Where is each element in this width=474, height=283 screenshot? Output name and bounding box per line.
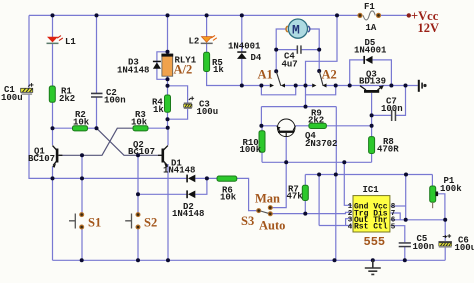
capacitor C1 [1,83,34,103]
svg-text:Rst Ctl: Rst Ctl [354,223,388,232]
svg-text:470R: 470R [377,145,399,155]
capacitor C7 [381,97,403,122]
potentiometer P1 [430,176,463,208]
wire cross line y106.6 [261,106,336,108]
wire R2 leads [53,127,73,129]
wire motor left branch [276,29,286,50]
relay coil RLY1 [161,54,196,77]
diode D5 [354,38,387,64]
svg-text:1N4001: 1N4001 [228,42,261,52]
wire D2 anode up to D1 row [195,178,207,194]
wire D3 bracket [157,52,168,80]
svg-text:1N4001: 1N4001 [354,46,387,56]
wire Q1 emitter drop [52,166,54,178]
wire Q2 collector riser [167,128,169,145]
wire Q4 collector to R9 [295,125,309,127]
wire crossover diagonal from C2 node to Q2 base [97,128,162,155]
svg-text:100k: 100k [240,145,262,155]
wire x336 drop to ground rail [335,107,337,175]
resistor R10 [240,131,266,155]
svg-text:1N4148: 1N4148 [117,66,149,76]
svg-text:IC1: IC1 [363,185,380,195]
wire pin6 row [391,219,446,221]
wire pin1 stub riser [344,162,352,205]
wire S2 branch [137,155,139,212]
svg-text:M: M [292,23,300,38]
+Vcc terminal [407,9,439,35]
svg-text:1N4148: 1N4148 [172,209,204,219]
svg-text:2N3702: 2N3702 [305,139,337,149]
svg-text:100n: 100n [381,104,403,114]
wire Q2 emitter to bottom rail [167,164,169,260]
wire Q4 emitter row [261,125,277,127]
diode D2 [172,190,204,219]
wire gnd-pin line y162.3 [262,161,372,163]
wire R7 bottom lead [304,201,306,214]
capacitor C5 [399,234,434,252]
wire bottom rail [53,259,446,261]
relay contact A2 [312,68,337,88]
svg-text:Man: Man [255,192,280,206]
resistor R1 [49,86,75,104]
transistor Q3 [359,70,386,93]
resistor R5 [204,52,225,75]
wire C4 row [276,49,297,51]
IC1 555 timer [348,185,396,249]
wire C2 column [96,15,98,93]
svg-text:5: 5 [391,223,396,231]
wire R7 top lead [304,175,306,186]
resistor R8 [369,137,400,155]
svg-text:S2: S2 [144,216,157,230]
svg-text:1A: 1A [366,23,377,33]
svg-text:555: 555 [364,235,386,249]
transistor Q1 [28,146,62,168]
svg-text:L1: L1 [65,37,76,47]
wire S1 branch [81,155,83,212]
wire pin8 stub [391,205,406,207]
svg-text:A2: A2 [322,68,337,82]
wire C5 bottom [404,247,406,261]
svg-text:1N4148: 1N4148 [163,166,195,176]
svg-text:2k2: 2k2 [308,115,324,125]
wire line y174.5 [305,174,432,176]
wire Auto line to pin2 [272,212,352,213]
wire A1 bypass U [261,86,295,95]
LED L1 [47,36,77,47]
wire fuse to Vcc terminal [381,14,408,16]
resistor R4 [152,95,171,115]
wire riser from Q4 emitter node [260,107,262,126]
wire R8 bottom to gnd-pin line [371,154,373,163]
wire D2 row from S2 branch [138,193,187,195]
diode D3 [117,58,161,76]
wire D5 cathode corner [350,60,364,86]
wire main row y85 D4 to A1 [242,85,270,87]
wire Q1 emitter to bottom rail [52,178,54,260]
wire P1 wiper wire [438,194,445,220]
wire D5 anode corner [372,60,391,86]
wire C3 branch [168,86,188,103]
ground symbol [365,260,381,274]
svg-text:100n: 100n [413,242,435,252]
chassis terminal symbol [418,80,427,92]
wire relay coil column [167,15,169,54]
capacitor C6 [439,234,474,253]
wire L1/R1 column [52,15,54,37]
wire Vcc feed from rail to A2 left [306,15,338,85]
wire C6 top lead [444,220,446,241]
wire R4 leads [167,86,169,95]
wire Q4 base drop [285,137,287,162]
svg-text:F1: F1 [364,2,375,12]
svg-text:S1: S1 [88,216,101,230]
resistor R9 [308,108,326,128]
capacitor C4 [282,45,302,69]
capacitor C2 [91,88,126,106]
wire top rail [29,14,359,16]
wire A2 bypass U [306,86,336,95]
diode D1 [163,159,195,183]
motor M [286,19,310,38]
wire C6 bottom lead [444,248,446,261]
wire R9 to Q3 base node [326,125,371,127]
svg-text:4u7: 4u7 [282,60,298,70]
wire Q3 base drop [371,93,373,126]
switch S3 [241,192,285,233]
wire P1 top lead [431,175,433,187]
fuse F1 [358,2,381,33]
wire L2/R5 column [206,15,208,37]
svg-text:100u: 100u [197,107,219,117]
relay contact A1 [258,68,286,88]
svg-text:A1: A1 [258,68,273,82]
wire left edge C1 branch [28,15,30,88]
transistor Q2 [128,140,168,168]
wire R3 right lead [148,127,168,129]
wire Q1 collector riser [52,128,54,145]
wire A2 to D5/Q3 row [326,85,418,87]
wire D4 column [241,15,243,52]
svg-text:10k: 10k [73,118,90,128]
wire D1 anode to R6 [195,177,217,179]
wire R10 leads [261,126,263,131]
wire Man riser [272,162,286,207]
wire pin5 to C5 [391,226,405,243]
wire R6 east to S3 common [237,178,257,210]
transistor Q4 [277,119,338,149]
wire motor right branch [310,29,320,50]
capacitor C3 [184,96,219,116]
svg-text:Bc107: Bc107 [128,147,155,157]
svg-text:1k: 1k [213,65,224,75]
svg-text:S3: S3 [241,214,254,228]
svg-text:BC107: BC107 [28,154,55,164]
svg-text:10k: 10k [131,118,148,128]
resistor R6 [217,176,237,203]
svg-text:100n: 100n [104,96,126,106]
resistor R7 [287,185,309,202]
svg-text:L2: L2 [189,37,200,47]
svg-text:Auto: Auto [259,219,285,233]
wire pin4 row [319,225,352,227]
svg-text:A/2: A/2 [174,63,193,77]
wire A2-left feed down to cross line [305,95,307,107]
svg-text:100u: 100u [455,243,474,253]
svg-text:BD139: BD139 [359,77,386,87]
resistor R2 [73,110,90,131]
diode D4 [228,42,262,64]
svg-text:2k2: 2k2 [59,94,75,104]
wire flip-flop node line y178 to D1 [53,177,187,179]
wire pin8 riser chain [405,175,407,220]
svg-text:4: 4 [348,223,353,231]
wire pin3 stub jog [346,219,352,226]
wire pin7 jog [391,213,401,220]
wire C7 left branch [372,114,392,116]
wire R3 left lead and diagonal to Q1 base [59,128,133,155]
svg-text:47k: 47k [287,192,304,202]
svg-text:100u: 100u [1,93,23,103]
svg-text:12V: 12V [418,21,440,35]
wire C7 right branch [396,86,406,116]
pushbutton S1 [69,213,101,230]
wire A1 pivot drop [275,50,277,72]
svg-text:1k: 1k [153,105,164,115]
wire pins3-4 riser [318,175,320,226]
pushbutton S2 [125,213,157,230]
wire A2 pivot drop [318,50,320,71]
LED L2 [189,35,217,46]
svg-text:D4: D4 [251,53,262,63]
wire A1 to A2 segment [285,85,313,87]
svg-text:100k: 100k [440,184,462,194]
wire R8 top lead [371,126,373,137]
svg-text:10k: 10k [220,193,237,203]
resistor R3 [131,110,148,131]
